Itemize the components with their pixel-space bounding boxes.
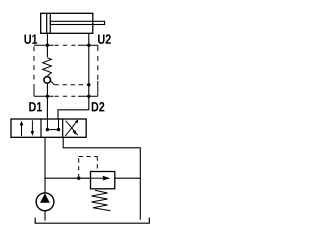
valve left position up arrow bbox=[21, 123, 23, 137]
node D2 junction bbox=[87, 95, 90, 98]
wire: cylinder left port stub bbox=[46, 33, 48, 45]
relief valve spring bbox=[92, 190, 111, 211]
pilot line from check valve bbox=[50, 81, 54, 85]
wire: pump branch to relief valve bbox=[45, 177, 91, 179]
wire: valve T port to tank return bbox=[63, 137, 140, 219]
valve right position crossed arrows bbox=[65, 121, 77, 136]
valve centre position stubs and dots bbox=[46, 119, 48, 129]
check valve ball C1 bbox=[44, 77, 51, 84]
label D1 bbox=[29, 102, 42, 111]
valve divider 2 bbox=[62, 119, 64, 137]
pump P1 bbox=[36, 193, 54, 211]
directional valve body bbox=[11, 119, 86, 137]
node pilot tap junction bbox=[77, 177, 80, 180]
node U1 junction bbox=[46, 44, 49, 47]
dashed enclosure box bbox=[55, 45, 79, 96]
label U2 bbox=[98, 34, 111, 44]
relief valve internal arrow bbox=[91, 177, 104, 179]
cylinder piston bbox=[47, 13, 51, 33]
wire: valve P port down to pump bbox=[44, 137, 46, 193]
wire: check valve down to D1 bbox=[46, 84, 48, 97]
relief valve body V1 bbox=[91, 172, 115, 189]
wire: U2 down to D2 bbox=[88, 45, 90, 96]
wire: U1 down to spring bbox=[46, 45, 48, 57]
valve divider 1 bbox=[40, 119, 42, 137]
cylinder body bbox=[41, 13, 93, 33]
wire: relief valve outlet to tank line bbox=[115, 177, 141, 179]
node D1 junction bbox=[46, 95, 49, 98]
wire: D2 to valve port B bbox=[58, 96, 89, 119]
valve left position down arrow bbox=[31, 120, 33, 133]
label U1 bbox=[24, 35, 37, 44]
wire: pump suction stub bbox=[44, 211, 46, 221]
cylinder rod bbox=[50, 21, 104, 24]
relief valve pilot dashed line bbox=[79, 157, 98, 179]
wire: D1 to valve port A bbox=[46, 96, 48, 119]
wire: cylinder right port stub bbox=[88, 33, 90, 45]
node U2 junction bbox=[87, 44, 90, 47]
tank symbol bbox=[35, 218, 149, 224]
node pilot junction bbox=[87, 83, 90, 86]
label D2 bbox=[92, 102, 105, 111]
check valve spring bbox=[43, 58, 52, 76]
